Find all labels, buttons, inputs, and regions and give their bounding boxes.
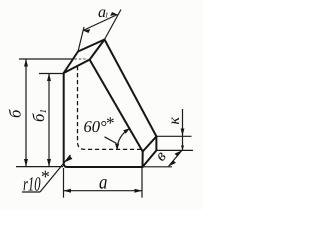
a1 ext right [105, 10, 122, 40]
svg-text:1: 1 [105, 11, 109, 20]
svg-text:1: 1 [38, 109, 48, 114]
60deg arc [117, 129, 129, 150]
b1 top arrow [47, 74, 51, 82]
r10 arrow [65, 155, 73, 162]
a1 right arrow [110, 12, 117, 16]
label k rotated [166, 117, 183, 125]
label b1 rotated [29, 109, 48, 122]
label b rotated [6, 109, 25, 118]
a1 ext left [78, 27, 84, 52]
ext line b (top, y=59) [19, 58, 73, 60]
b1 bottom arrow [47, 159, 51, 167]
k ext upper [157, 135, 192, 137]
baseline ext (y=166.6 left) [16, 166, 63, 168]
ext line b1 (y=73.5) [39, 73, 64, 75]
svg-text:r10: r10 [23, 174, 41, 196]
60 arc arrow top [123, 128, 130, 134]
dim line b vertical [25, 59, 27, 167]
front face outline [64, 60, 143, 167]
hidden bend line (dashed) [78, 66, 145, 149]
a dim line [64, 190, 143, 192]
b top arrow [24, 59, 28, 67]
svg-text:б: б [6, 109, 25, 118]
arrowheads [24, 12, 184, 193]
r10 leader [40, 155, 71, 192]
a left arrow [64, 189, 72, 193]
svg-text:к: к [166, 117, 183, 125]
svg-text:*: * [40, 167, 49, 187]
a ext left [63, 168, 65, 198]
a1 dim line [83, 15, 118, 31]
depth edge upper right [143, 136, 157, 151]
k ext lower [157, 149, 194, 151]
v upper arrow [175, 150, 183, 156]
60 arc arrow bottom [115, 144, 119, 151]
v dim line [169, 150, 183, 166]
bottom edge ext right (for v) [143, 166, 173, 168]
a right arrow [135, 189, 143, 193]
depth edge lower right [143, 150, 157, 167]
k down arrow [181, 129, 185, 137]
a1 left arrow [83, 29, 90, 33]
svg-text:a: a [99, 171, 107, 193]
60deg leader [105, 137, 117, 144]
b bottom arrow [24, 159, 28, 167]
back right vertical edge [155, 136, 157, 150]
r10 shelf [22, 191, 40, 193]
k dim line [182, 109, 184, 151]
v lower arrow [169, 160, 177, 166]
dim line b1 vertical [48, 74, 50, 167]
label v rotated [151, 147, 170, 165]
svg-text:60°: 60° [84, 117, 108, 136]
k small lower arrow [181, 146, 184, 151]
top face strip [64, 40, 105, 74]
svg-text:*: * [105, 114, 114, 133]
back slant edge [105, 40, 157, 137]
thin dimension/extension lines [16, 10, 193, 198]
a ext right [141, 168, 143, 198]
